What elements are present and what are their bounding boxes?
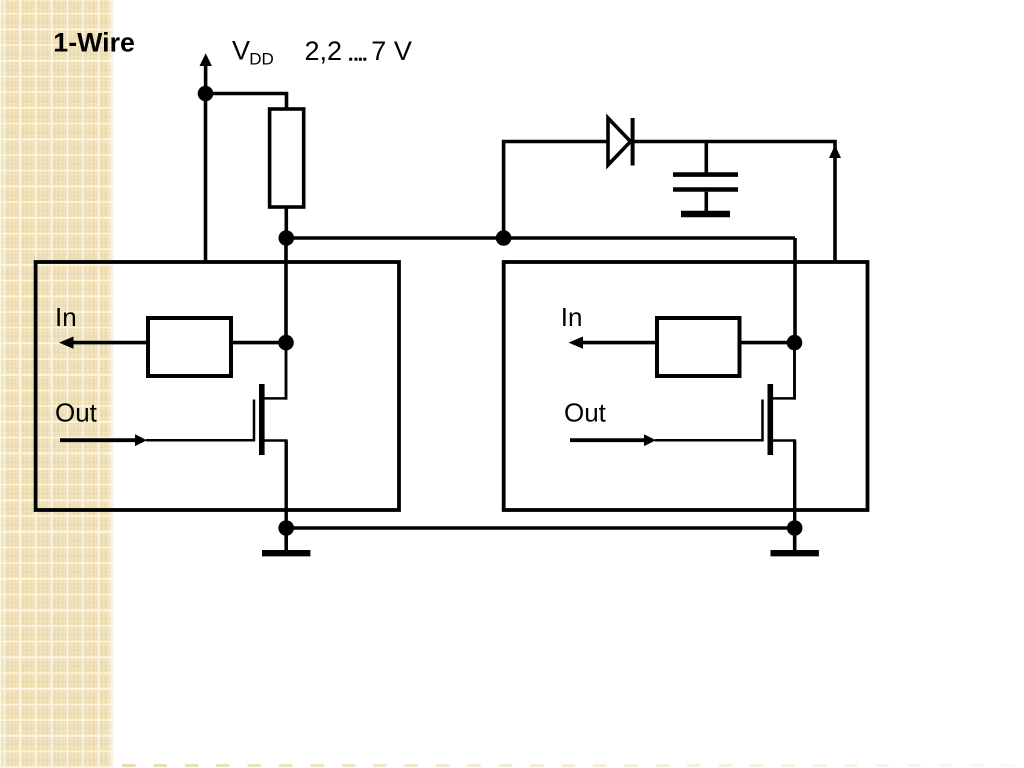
left bus entry: box top to node D xyxy=(284,238,288,343)
left source vertical to ground node xyxy=(285,441,288,529)
right Out thin wire to gate xyxy=(655,439,763,442)
right MOSFET channel bar xyxy=(768,384,774,455)
wire: VDD node to resistor top xyxy=(206,94,287,110)
right In wire buffer to node E xyxy=(740,341,795,345)
left MOSFET channel bar xyxy=(259,384,265,455)
right source vertical to ground node xyxy=(793,441,796,529)
left tan grid strip xyxy=(0,0,114,768)
junction node B (resistor/bus) xyxy=(279,230,295,246)
resistor R pull-up xyxy=(270,109,304,207)
bottom dashed grid edge xyxy=(122,764,1024,767)
arrowhead up on right branch xyxy=(829,145,841,158)
junction node C (diode branch) xyxy=(496,230,512,246)
left MOSFET source lead xyxy=(265,439,288,442)
right ground stub xyxy=(793,528,797,550)
VDD arrow stem xyxy=(204,64,208,94)
right MOSFET drain lead xyxy=(773,397,796,400)
left Out arrow line thick xyxy=(60,438,137,442)
right In buffer box xyxy=(657,318,740,376)
right In arrow line xyxy=(580,341,657,345)
left Out arrowhead xyxy=(135,434,147,446)
left In arrow line xyxy=(71,341,148,345)
left ground bar xyxy=(262,550,310,556)
svg-text:In: In xyxy=(55,302,77,332)
wire: bus to right box entry xyxy=(793,238,797,343)
left MOSFET gate line xyxy=(253,400,256,442)
svg-text:7 V: 7 V xyxy=(371,36,412,66)
svg-text:2,2: 2,2 xyxy=(305,36,343,66)
wire: node C up to diode branch xyxy=(504,142,835,263)
right Out arrow line thick xyxy=(570,438,646,442)
right ground bar xyxy=(771,550,819,556)
VDD arrowhead xyxy=(200,53,212,66)
junction node D (left In) xyxy=(278,335,294,351)
junction node F (left ground) xyxy=(278,520,294,536)
junction node G (right ground) xyxy=(787,520,803,536)
wire: resistor bottom to bus node B xyxy=(284,207,288,238)
fade of bottom dashes toward right xyxy=(122,764,1024,768)
left Out thin wire to gate xyxy=(146,439,255,442)
wire: left vertical VDD to left box top xyxy=(204,94,208,262)
ground bus wire bottom xyxy=(286,526,795,530)
diode D1 xyxy=(608,118,633,166)
left In wire buffer to node D xyxy=(231,341,286,345)
right MOSFET source lead xyxy=(773,439,796,442)
junction node A (VDD) xyxy=(198,86,214,102)
svg-text:Out: Out xyxy=(564,398,607,428)
capacitor lead to ground xyxy=(704,192,708,211)
capacitor C1 plates xyxy=(673,172,738,177)
left MOSFET drain lead xyxy=(265,397,288,400)
left In arrowhead xyxy=(59,337,74,349)
junction node E (right In) xyxy=(787,335,803,351)
right bus entry vertical inside box xyxy=(793,343,796,400)
left device box xyxy=(36,262,399,510)
svg-text:DD: DD xyxy=(249,50,274,69)
ground (capacitor) xyxy=(681,211,730,217)
svg-text:In: In xyxy=(561,302,583,332)
wire: 1-wire bus horizontal xyxy=(286,236,795,240)
dots of 2,2 .... 7 V xyxy=(349,58,352,61)
right MOSFET gate line xyxy=(761,400,764,442)
svg-text:1-Wire: 1-Wire xyxy=(53,28,135,58)
right In arrowhead xyxy=(569,337,584,349)
left MOSFET drain vertical from node D xyxy=(285,343,288,400)
right device box xyxy=(504,262,868,510)
right Out arrowhead xyxy=(644,434,656,446)
left ground stub xyxy=(284,528,288,550)
left In buffer box xyxy=(148,318,231,376)
svg-text:V: V xyxy=(232,35,250,65)
capacitor C1 lead top xyxy=(704,142,708,174)
svg-text:Out: Out xyxy=(55,398,98,428)
